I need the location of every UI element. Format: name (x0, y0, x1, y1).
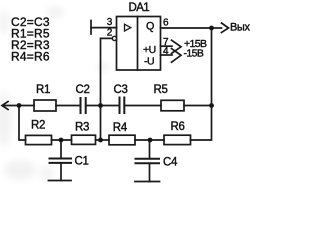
wire R2 to R3 (52, 139, 72, 141)
wire C4 to ground bar (149, 163, 151, 181)
junction node R4-R6 (148, 138, 153, 143)
resistor R4 (109, 135, 135, 145)
wire C1 to ground bar (60, 163, 62, 181)
resistor R5 (161, 100, 184, 111)
wire pin 7 (161, 45, 173, 47)
svg-text:3: 3 (107, 17, 113, 28)
wire input drop to R2 (19, 106, 26, 141)
wire node to C4 (149, 143, 151, 159)
wire C3 to R5 (124, 105, 161, 107)
svg-text:C2: C2 (76, 84, 90, 96)
resistor R3 (72, 135, 96, 144)
wire input to R1 (4, 105, 35, 107)
wire pin 4 (161, 54, 173, 56)
svg-text:+U: +U (143, 44, 156, 56)
svg-text:-15В: -15В (184, 48, 204, 60)
op-amp DA1 (112, 2, 160, 70)
svg-text:6: 6 (163, 17, 169, 28)
svg-text:R5: R5 (154, 84, 168, 96)
svg-text:2: 2 (107, 28, 113, 39)
svg-text:R4=R6: R4=R6 (11, 50, 50, 64)
capacitor C3 (120, 98, 125, 114)
supply arrow +15V (172, 40, 182, 53)
capacitor C1 (50, 159, 72, 163)
wire R5 to right rail (184, 105, 212, 107)
resistor R2 (26, 135, 52, 144)
wire R3 to R4 (96, 139, 110, 141)
wire C2 to C3 (86, 105, 120, 107)
svg-text:C1: C1 (75, 156, 89, 168)
junction input node (17, 103, 22, 108)
output arrow Vykh (214, 27, 222, 29)
output node (209, 26, 214, 31)
ground bar C4 (135, 181, 160, 183)
input terminal tick (pin 3) (90, 21, 92, 35)
svg-text:R3: R3 (75, 122, 89, 134)
svg-text:C3: C3 (114, 84, 128, 96)
junction node R2-R3 (59, 138, 64, 143)
capacitor C2 (81, 98, 86, 113)
wire R4 to R6 (135, 139, 164, 141)
junction node R3-R4 (98, 138, 103, 143)
ground bar C1 (49, 180, 72, 182)
resistor R1 (34, 100, 56, 111)
svg-text:R1: R1 (36, 84, 50, 96)
wire pin 3 (91, 27, 117, 29)
wire pin 6 to output node (161, 27, 212, 29)
svg-text:Вых: Вых (230, 22, 250, 34)
svg-text:R6: R6 (171, 121, 185, 133)
wire node to C1 (60, 142, 62, 158)
wire R1 to C2 (56, 105, 81, 107)
svg-text:-U: -U (144, 55, 154, 67)
svg-text:R4: R4 (113, 122, 128, 134)
supply arrow -15V (172, 49, 182, 63)
svg-text:C4: C4 (163, 157, 178, 169)
junction node mid top (98, 103, 103, 108)
svg-text:DA1: DA1 (129, 2, 150, 14)
svg-text:R2: R2 (31, 120, 45, 132)
resistor R6 (164, 135, 191, 144)
wire pin 2 to middle node (101, 38, 113, 140)
svg-text:Q: Q (146, 20, 154, 32)
input arrow (2, 102, 8, 110)
wire right rail (191, 28, 212, 140)
capacitor C4 (136, 159, 160, 164)
junction right rail node (209, 103, 214, 108)
note: equality text block (11, 15, 50, 64)
